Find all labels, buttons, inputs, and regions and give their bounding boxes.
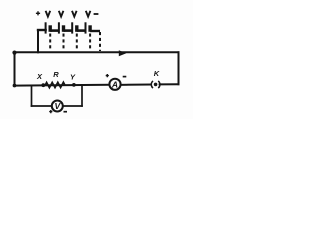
dashed drop 4: [89, 34, 91, 52]
cell 1 long plate: [45, 22, 47, 33]
label: ammeter minus: [123, 76, 127, 78]
dashed drop right lead: [99, 32, 101, 51]
key K: left contact arc: [151, 81, 153, 88]
node X dot: [41, 83, 45, 87]
wire: battery right lead horizontal: [90, 30, 100, 32]
ammeter A1 circle: [109, 79, 120, 90]
svg-text:Y: Y: [70, 73, 76, 82]
wire: voltmeter branch right vertical: [81, 85, 83, 106]
label: cell mark v3: [72, 11, 77, 17]
svg-text:X: X: [36, 72, 43, 81]
label: cell mark v1: [46, 11, 51, 17]
cell 2 long plate: [58, 22, 60, 33]
cell3-cell4 connector: [77, 29, 86, 32]
label: battery minus sign: [94, 13, 99, 15]
svg-text:R: R: [53, 70, 59, 79]
wire: right vertical side: [178, 52, 180, 84]
battery B1: four cells: [46, 22, 100, 33]
cell 4 long plate: [85, 22, 87, 33]
key K: plug dot: [154, 83, 158, 87]
wire: bottom rail between key and right corner: [160, 83, 179, 85]
wire: top horizontal rail: [15, 51, 179, 53]
battery dashed drop lines: [50, 32, 100, 51]
label: cell mark v2: [59, 11, 64, 17]
wire: voltmeter branch left vertical: [31, 86, 33, 107]
dashed drop 3: [76, 34, 78, 52]
cell 1 short plate: [49, 25, 52, 32]
resistor R zigzag: [45, 82, 65, 88]
label: cell mark v4: [86, 11, 91, 17]
node: bottom-left junction dot: [13, 84, 17, 88]
label: voltmeter minus: [64, 111, 68, 113]
wire: voltmeter branch bottom left: [32, 105, 52, 107]
cell 2 short plate: [62, 25, 65, 32]
cell2-cell3 connector: [64, 29, 73, 32]
current direction arrow on top wire: [119, 50, 127, 56]
dashed drop 2: [63, 34, 65, 52]
wire: bottom rail between ammeter and key: [120, 84, 151, 86]
label: voltmeter plus: [49, 110, 52, 113]
cell 3 long plate: [71, 22, 73, 33]
cell 4 short plate: [88, 25, 91, 32]
voltmeter V1 circle: [52, 101, 63, 112]
cell1-cell2 connector: [50, 29, 59, 32]
cell 3 short plate: [75, 25, 78, 32]
node: top-left junction dot: [12, 51, 16, 55]
wire: bottom horizontal rail: [15, 84, 110, 87]
wire: left vertical side: [14, 52, 16, 85]
label: battery plus sign: [36, 11, 40, 15]
node Y dot: [72, 83, 76, 87]
wire: battery left lead vertical: [37, 30, 39, 52]
wire: voltmeter branch bottom right: [63, 105, 82, 107]
key K: right contact arc: [158, 81, 160, 88]
voltmeter branch wires: [32, 85, 83, 106]
svg-text:A: A: [111, 80, 118, 90]
wire: battery left lead horizontal: [38, 29, 46, 31]
svg-text:K: K: [154, 69, 160, 78]
label: ammeter plus: [106, 74, 109, 77]
dashed drop 1: [49, 34, 51, 52]
